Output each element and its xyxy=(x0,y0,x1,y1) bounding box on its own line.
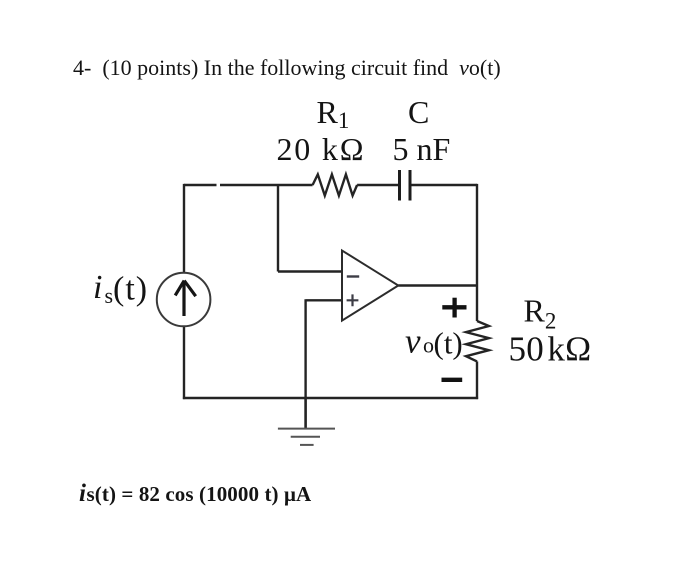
svg-text:i: i xyxy=(79,480,86,507)
svg-text:R2: R2 xyxy=(524,293,557,334)
svg-text:C: C xyxy=(408,94,429,130)
svg-text:s(t) = 82 cos (10000 t) μA: s(t) = 82 cos (10000 t) μA xyxy=(87,482,312,506)
svg-text:R1: R1 xyxy=(317,94,350,133)
svg-text:20 kΩ: 20 kΩ xyxy=(277,131,366,167)
svg-text:i: i xyxy=(93,269,102,306)
svg-text:50 kΩ: 50 kΩ xyxy=(509,330,592,369)
svg-text:v: v xyxy=(405,322,421,361)
svg-text:5 nF: 5 nF xyxy=(393,131,451,167)
svg-text:s: s xyxy=(105,283,114,308)
svg-text:o: o xyxy=(423,333,434,358)
svg-text:(t): (t) xyxy=(113,271,148,308)
svg-text:4- (10 points) In the followi: 4- (10 points) In the following circuit … xyxy=(73,55,501,80)
svg-text:(t): (t) xyxy=(434,326,463,361)
